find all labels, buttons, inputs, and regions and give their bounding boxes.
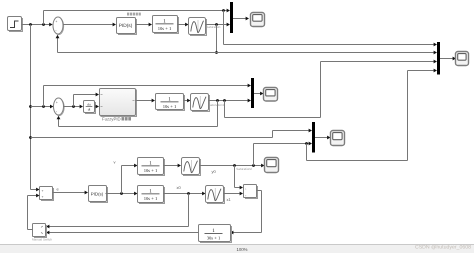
grey CJK caption above PID1: [127, 13, 129, 16]
wire mux3 to scope4: [315, 137, 327, 139]
wire sum2 out: [64, 106, 80, 108]
feedback row2: [59, 101, 218, 127]
wire PID1 to TF1: [136, 24, 149, 26]
transfer function block 1/(30s+1) flipped: [200, 226, 232, 243]
wire y0 to mux4 input4: [307, 71, 434, 161]
svg-text:du: du: [87, 102, 91, 106]
feedback line row1 and mux4 input2: [58, 52, 434, 54]
svg-text:Saturation2: Saturation2: [236, 167, 252, 171]
svg-text:x1: x1: [227, 197, 232, 202]
svg-text:dt: dt: [88, 108, 91, 112]
svg-text:v: v: [114, 160, 116, 165]
svg-text:y0: y0: [212, 169, 217, 174]
transfer function block 1/(10s+1) row1: [154, 17, 179, 34]
subsystem block FuzzyPID: [101, 90, 137, 117]
scope block Scope1: [251, 13, 265, 27]
svg-text:Saturation: Saturation: [206, 25, 220, 29]
junction switch branch: [233, 164, 236, 167]
reference wire to mux3 input1: [31, 131, 309, 138]
svg-text:+: +: [42, 189, 44, 193]
wire manual switch to sum3 input2: [28, 196, 37, 230]
scope block Scope3: [265, 158, 279, 173]
saturation block row3b: [207, 187, 225, 204]
wire y0 to mux3 input2: [254, 143, 309, 145]
left reference rail: [30, 25, 32, 190]
transfer function block 1/(10s+1) row2: [157, 95, 185, 111]
wire sum1 to PID1: [63, 24, 113, 26]
wire mux1 to scope1: [233, 18, 246, 20]
wire rail into sum3: [31, 189, 37, 191]
wire switch out down to TF4: [233, 191, 261, 233]
mux Mux3: [312, 122, 315, 153]
PID controller block PID(s) row3: [90, 187, 108, 203]
svg-text:100%: 100%: [237, 247, 248, 252]
svg-text:FuzzyPID: FuzzyPID: [102, 117, 121, 122]
svg-text:›: ›: [245, 193, 246, 197]
wire e to fuzzy input1: [74, 95, 96, 107]
derivative block du/dt: [85, 102, 96, 114]
svg-text:PID(s): PID(s): [119, 23, 133, 29]
transfer function block 1/(10s+1) row3b: [139, 187, 165, 204]
svg-text:10s + 1: 10s + 1: [144, 196, 158, 201]
junction rail row2: [29, 105, 32, 108]
wire PID3 to TF3b: [106, 193, 135, 195]
wire step to sum1: [22, 24, 50, 26]
wire branch up to mux3 line: [253, 144, 255, 166]
wire branch down to switch input1: [235, 166, 240, 188]
mux Mux4: [437, 42, 440, 75]
wire derivative to fuzzy input2: [95, 106, 96, 108]
reference drop to mux4 input1: [224, 11, 434, 45]
wire direct branch to manual switch input1: [49, 194, 189, 227]
junction ref to mux4: [222, 9, 225, 12]
wire TF2 to saturation2: [184, 100, 188, 102]
svg-text:x0: x0: [177, 185, 182, 190]
wire rail to sum2: [31, 106, 51, 108]
wire mux4 to scope5: [440, 58, 453, 60]
scope block Scope4: [331, 131, 345, 146]
wire saturation2 to mux2: [209, 100, 248, 102]
junction v split: [120, 192, 123, 195]
saturation block row3a: [183, 159, 201, 176]
wire TF3a to saturation3a: [164, 165, 178, 167]
svg-text:Saturation1: Saturation1: [209, 103, 225, 107]
svg-text:Manual Switch: Manual Switch: [32, 238, 52, 242]
junction ref2 takeoff: [42, 105, 45, 108]
feedback drop row1: [216, 25, 218, 53]
mux Mux2: [251, 78, 254, 108]
PID controller block PID(s) row1: [118, 19, 137, 35]
wire fuzzy output to mux4 input3: [225, 62, 434, 118]
wire sum3 to PID3: [53, 192, 85, 194]
svg-text:10s + 1: 10s + 1: [144, 168, 158, 173]
junction y0 up branch: [252, 164, 255, 167]
svg-text:+: +: [55, 19, 57, 23]
junction fb2 drop: [216, 99, 219, 102]
reference wire to mux1 top: [44, 11, 227, 25]
status bar strip: [0, 245, 474, 253]
junction e signal: [72, 105, 75, 108]
junction rail mux3 takeoff: [29, 136, 32, 139]
switch block row3: [245, 186, 258, 199]
manual switch block flipped: [34, 225, 47, 238]
sum block Sum3: [41, 188, 54, 201]
wire saturation3b to switch input2: [224, 193, 240, 195]
wire TF3b to saturation3b: [164, 193, 203, 195]
reference wire to mux2 top: [44, 86, 248, 107]
wire saturation3a to scope3: [200, 165, 262, 167]
svg-text:10s + 1: 10s + 1: [163, 104, 177, 109]
junction ref1 takeoff: [42, 23, 45, 26]
feedback rise into sum1: [57, 37, 59, 53]
transfer function block 1/(10s+1) row3a: [139, 159, 165, 176]
sum block Sum1: [54, 18, 64, 35]
svg-text:PID(s): PID(s): [91, 191, 104, 196]
mux Mux1: [230, 2, 233, 33]
junction rail root: [29, 23, 32, 26]
junction flip branch: [187, 192, 190, 195]
wire TF1 to saturation1: [178, 24, 186, 26]
junction feedback row1: [215, 51, 218, 54]
wire mux2 to scope2: [254, 93, 260, 95]
junction mux4in3 drop: [223, 99, 226, 102]
scope block Scope2: [264, 88, 278, 102]
step source block: [9, 18, 23, 32]
sum block Sum2: [54, 99, 64, 116]
svg-text:+: +: [42, 195, 44, 199]
junction out1 drop: [215, 23, 218, 26]
svg-text:e: e: [57, 187, 60, 192]
saturation block row1: [190, 19, 207, 36]
wire fuzzy to TF2: [136, 100, 152, 102]
wire saturation1 to mux1: [206, 24, 227, 26]
svg-text:+: +: [56, 100, 58, 104]
scope block Scope5: [456, 52, 469, 66]
wire TF4 out to manual switch input2: [49, 232, 199, 234]
junction mux4in4 takeoff: [305, 142, 308, 145]
svg-text:CSDN @hutudyer_0608: CSDN @hutudyer_0608: [415, 245, 471, 251]
saturation block row2: [192, 95, 210, 112]
svg-text:30s + 1: 30s + 1: [207, 236, 221, 241]
svg-text:10s + 1: 10s + 1: [158, 26, 172, 31]
wire v branch to TF3a: [122, 166, 135, 194]
svg-text:›: ›: [245, 187, 246, 191]
